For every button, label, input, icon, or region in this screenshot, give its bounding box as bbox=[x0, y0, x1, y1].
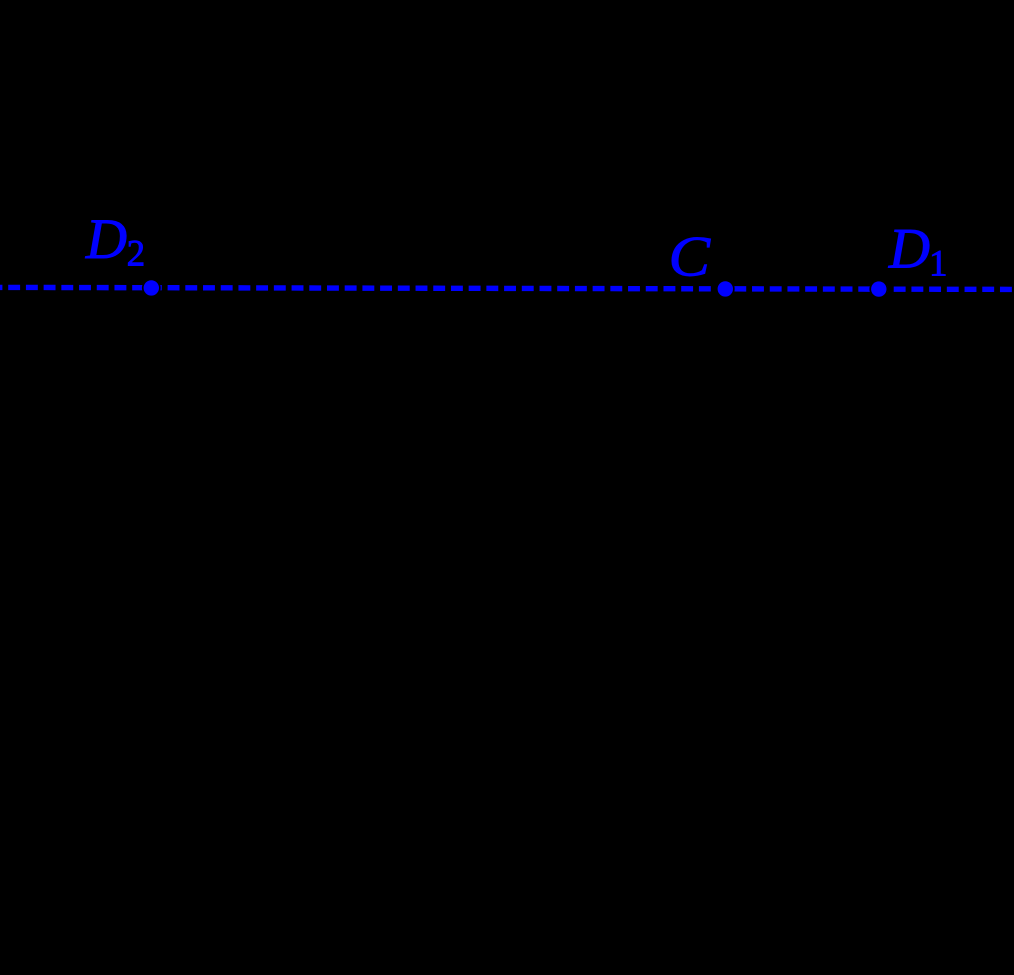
svg-text:C: C bbox=[669, 226, 712, 289]
node D1 bbox=[869, 218, 947, 299]
node C bbox=[669, 226, 735, 299]
svg-text:D: D bbox=[888, 218, 930, 281]
svg-text:2: 2 bbox=[127, 234, 146, 275]
svg-text:D: D bbox=[85, 208, 127, 271]
svg-text:1: 1 bbox=[929, 243, 948, 284]
node D2 bbox=[85, 208, 161, 297]
wire dashed line through D2, C, D1 bbox=[0, 287, 1014, 289]
